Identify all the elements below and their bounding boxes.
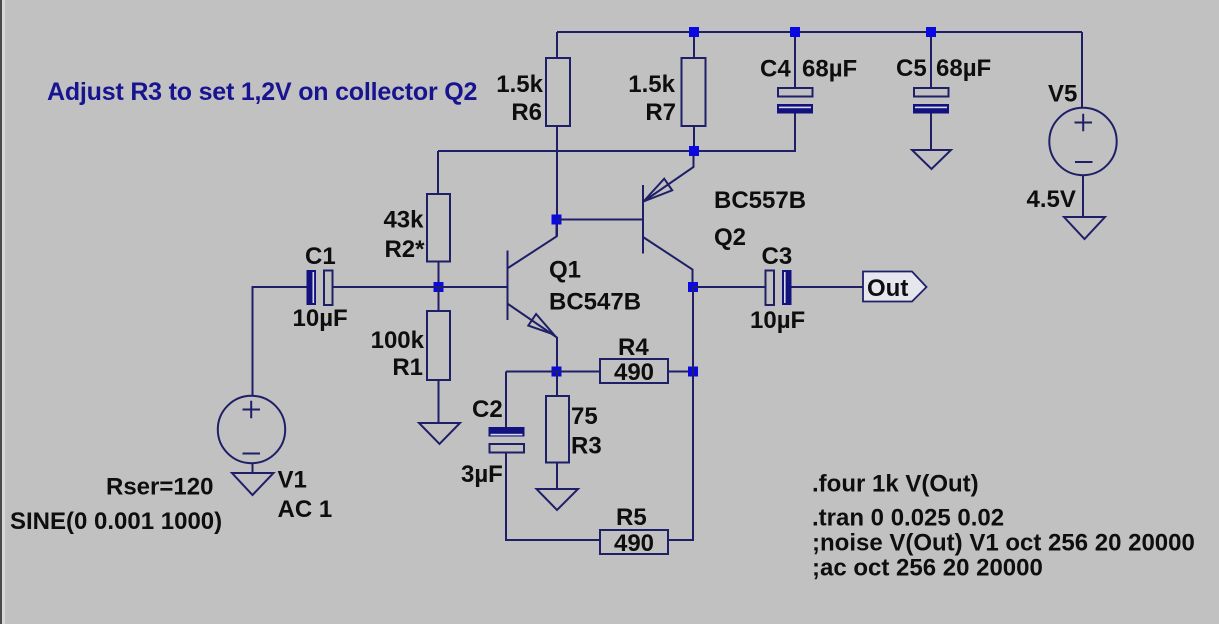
wire R3 bottom stub — [556, 463, 558, 490]
ground under V5 — [1064, 217, 1105, 239]
svg-text:.four 1k V(Out): .four 1k V(Out) — [812, 471, 979, 498]
spice directive .tran — [812, 505, 1004, 532]
svg-text:BC547B: BC547B — [549, 289, 641, 316]
capacitor C4 — [760, 56, 857, 114]
wire C2 bottom to R5 — [506, 453, 600, 541]
svg-text:R3: R3 — [571, 433, 602, 460]
wire R2 bottom stub — [438, 262, 440, 288]
resistor R2 — [383, 194, 450, 263]
transistor Q2 — [643, 155, 806, 282]
svg-text:68µF: 68µF — [936, 55, 991, 82]
svg-text:AC 1: AC 1 — [278, 496, 333, 523]
wire C4 top stub — [794, 32, 796, 87]
svg-text:68µF: 68µF — [802, 56, 857, 83]
wire V1 bottom stub — [252, 463, 254, 473]
svg-text:.tran 0 0.025 0.02: .tran 0 0.025 0.02 — [812, 505, 1004, 532]
svg-text:R4: R4 — [618, 334, 649, 361]
svg-text:1.5k: 1.5k — [496, 71, 543, 98]
ground under R3 — [537, 489, 579, 510]
svg-text:SINE(0 0.001 1000): SINE(0 0.001 1000) — [10, 508, 222, 535]
wire R1 bottom stub — [438, 380, 440, 423]
wire R4 right stub — [668, 371, 693, 373]
wire R7 bottom stub — [693, 126, 695, 151]
wire Q2 base wire — [557, 219, 644, 221]
wire R1 top stub — [438, 287, 440, 311]
node junction R4-R5 riser — [688, 367, 698, 377]
node junction Q1 collector / R6 / Q2 base — [552, 215, 562, 225]
ground under R1 — [419, 423, 460, 444]
svg-text:V1: V1 — [278, 467, 307, 494]
node junction rail-C4 — [790, 27, 800, 37]
ground under V1 — [232, 473, 274, 495]
node junction base node — [434, 282, 444, 292]
capacitor C3 — [750, 243, 805, 334]
svg-text:Q2: Q2 — [714, 224, 746, 251]
wire Q2 collector to C3 — [693, 286, 765, 288]
node junction emitter node — [552, 367, 562, 377]
node junction bias rail / R7 bottom — [689, 146, 699, 156]
spice directive noise — [812, 530, 1195, 557]
svg-text:490: 490 — [614, 359, 654, 386]
svg-text:Q1: Q1 — [549, 257, 581, 284]
port Out flag — [863, 272, 927, 303]
voltage source V1 — [10, 396, 332, 535]
resistor R7 — [628, 58, 705, 126]
wire V5 bottom stub — [1082, 175, 1084, 217]
spice directive .four — [812, 471, 979, 498]
svg-text:R7: R7 — [645, 99, 676, 126]
svg-text:C5: C5 — [896, 55, 927, 82]
svg-text:R1: R1 — [392, 354, 423, 381]
svg-text:BC557B: BC557B — [714, 187, 806, 214]
svg-text:;ac oct 256 20 20000: ;ac oct 256 20 20000 — [812, 555, 1043, 582]
svg-text:C2: C2 — [472, 396, 503, 423]
wire C5 bottom stub — [930, 114, 932, 151]
svg-text:R2*: R2* — [384, 236, 425, 263]
wire C4 bottom to bias rail — [438, 114, 795, 152]
svg-text:1.5k: 1.5k — [628, 71, 675, 98]
wire C3 to Out port — [792, 286, 864, 288]
resistor R4 — [600, 334, 668, 386]
window left border — [0, 0, 5, 624]
svg-text:Rser=120: Rser=120 — [106, 474, 213, 501]
ground under C5 — [912, 150, 951, 169]
wire V5 top drop — [1081, 32, 1083, 108]
resistor R6 — [496, 58, 570, 126]
svg-text:490: 490 — [614, 530, 654, 557]
node junction Q2 collector — [688, 282, 698, 292]
svg-text:C3: C3 — [762, 243, 793, 270]
spice directive ac — [812, 555, 1043, 582]
transistor Q1 — [508, 225, 642, 367]
capacitor C1 — [293, 243, 348, 332]
svg-text:43k: 43k — [383, 207, 424, 234]
svg-text:Out: Out — [867, 275, 908, 302]
wire top rail — [557, 31, 1082, 33]
resistor R1 — [371, 311, 450, 381]
svg-text:R6: R6 — [511, 99, 542, 126]
wire R7 top stub — [693, 32, 695, 58]
node junction rail-C5 — [926, 27, 936, 37]
svg-text:;noise V(Out) V1 oct 256 20 20: ;noise V(Out) V1 oct 256 20 20000 — [812, 530, 1195, 557]
svg-text:100k: 100k — [371, 327, 425, 354]
wire R6 top stub — [556, 32, 558, 58]
svg-text:10µF: 10µF — [293, 305, 348, 332]
svg-text:C4: C4 — [760, 56, 791, 83]
comment text (blue) — [47, 78, 477, 106]
capacitor C5 — [896, 55, 991, 114]
wire C1 to Q1 base — [333, 286, 507, 288]
svg-text:3µF: 3µF — [461, 461, 503, 488]
wire V1 to C1 — [253, 287, 308, 396]
svg-text:4.5V: 4.5V — [1027, 186, 1076, 213]
wire C2 top riser — [505, 372, 507, 428]
svg-text:R5: R5 — [616, 504, 647, 531]
svg-text:10µF: 10µF — [750, 307, 805, 334]
wire R2 top stub — [437, 151, 439, 194]
svg-text:C1: C1 — [305, 243, 336, 270]
wire R6 bottom to Q1 collector node — [556, 126, 558, 237]
svg-text:75: 75 — [571, 403, 598, 430]
capacitor C2 — [461, 396, 525, 488]
wire R5 right riser to Q2 collector — [668, 287, 693, 540]
resistor R5 — [600, 504, 668, 557]
svg-text:Adjust R3 to set 1,2V on colle: Adjust R3 to set 1,2V on collector Q2 — [47, 78, 477, 106]
resistor R3 — [546, 396, 602, 463]
wire C5 top stub — [930, 32, 932, 87]
voltage source V5 — [1027, 81, 1117, 214]
svg-text:V5: V5 — [1048, 81, 1077, 108]
node junction rail-R7 — [689, 27, 699, 37]
wire emitter node horizontal — [506, 371, 600, 373]
wire R3 top stub — [556, 372, 558, 397]
